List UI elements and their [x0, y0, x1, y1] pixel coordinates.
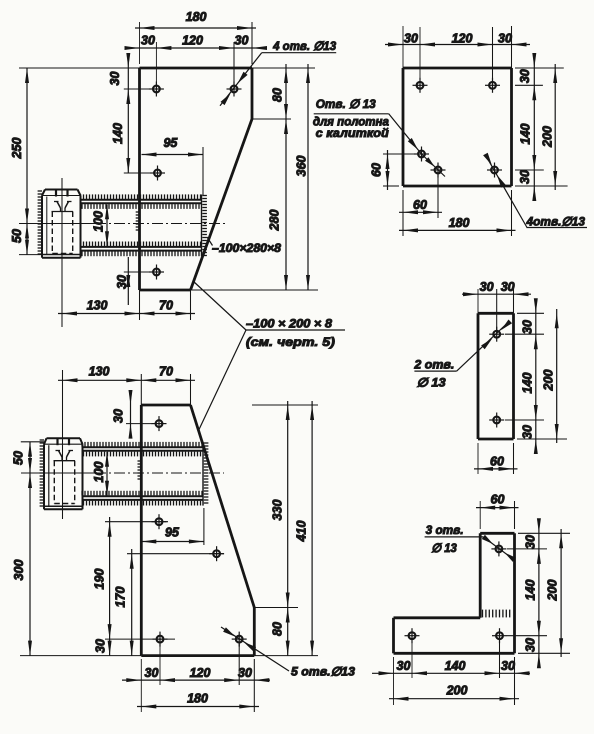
svg-text:120: 120: [452, 31, 473, 45]
svg-text:140: 140: [520, 373, 534, 394]
svg-text:100: 100: [91, 211, 105, 232]
svg-text:130: 130: [89, 364, 110, 378]
svg-text:250: 250: [10, 138, 24, 160]
svg-text:30: 30: [108, 72, 122, 86]
svg-text:180: 180: [187, 691, 208, 705]
svg-text:60: 60: [491, 492, 505, 506]
svg-text:280: 280: [267, 210, 281, 232]
svg-text:180: 180: [186, 10, 207, 24]
svg-text:с калиткой: с калиткой: [316, 126, 390, 140]
svg-text:30: 30: [141, 33, 155, 47]
svg-text:80: 80: [270, 622, 284, 636]
svg-text:Отв. ∅ 13: Отв. ∅ 13: [316, 97, 376, 111]
svg-text:300: 300: [12, 560, 26, 581]
svg-text:80: 80: [270, 88, 284, 102]
svg-text:30: 30: [235, 33, 249, 47]
svg-text:30: 30: [397, 659, 411, 673]
svg-text:70: 70: [159, 364, 173, 378]
svg-text:30: 30: [501, 280, 515, 294]
svg-text:30: 30: [404, 31, 418, 45]
svg-text:120: 120: [190, 666, 211, 680]
svg-text:70: 70: [159, 298, 173, 312]
svg-text:30: 30: [480, 280, 494, 294]
svg-text:–100×280×8: –100×280×8: [212, 241, 281, 255]
svg-text:120: 120: [182, 33, 203, 47]
svg-text:60: 60: [490, 454, 504, 468]
svg-text:130: 130: [87, 298, 108, 312]
svg-text:50: 50: [10, 229, 24, 243]
svg-text:30: 30: [518, 69, 532, 83]
svg-text:200: 200: [541, 370, 555, 392]
svg-text:∅ 13: ∅ 13: [417, 375, 446, 389]
svg-text:4 отв. ∅13: 4 отв. ∅13: [272, 39, 336, 53]
svg-text:60: 60: [413, 198, 427, 212]
svg-text:30: 30: [523, 638, 537, 652]
svg-text:410: 410: [294, 521, 308, 543]
svg-text:30: 30: [111, 409, 125, 423]
svg-text:4отв.∅13: 4отв.∅13: [526, 214, 586, 228]
svg-text:–100 × 200 × 8: –100 × 200 × 8: [246, 317, 332, 331]
svg-text:200: 200: [446, 683, 468, 697]
svg-text:140: 140: [523, 580, 537, 601]
svg-text:5 отв.∅13: 5 отв.∅13: [291, 664, 355, 678]
svg-text:170: 170: [113, 587, 127, 608]
svg-text:30: 30: [145, 666, 159, 680]
svg-text:190: 190: [92, 569, 106, 590]
svg-text:95: 95: [165, 525, 180, 539]
svg-text:50: 50: [11, 451, 25, 465]
svg-text:30: 30: [520, 320, 534, 334]
svg-text:95: 95: [163, 136, 178, 150]
svg-text:(см. черт. 5): (см. черт. 5): [246, 335, 335, 349]
svg-text:30: 30: [498, 31, 512, 45]
svg-text:100: 100: [92, 462, 106, 483]
svg-text:180: 180: [449, 216, 470, 230]
svg-text:30: 30: [501, 659, 515, 673]
svg-text:2 отв.: 2 отв.: [413, 358, 454, 372]
svg-text:200: 200: [540, 126, 554, 148]
svg-text:140: 140: [445, 659, 466, 673]
svg-text:330: 330: [270, 500, 284, 521]
svg-text:30: 30: [520, 425, 534, 439]
svg-text:30: 30: [115, 275, 129, 289]
svg-text:360: 360: [294, 156, 308, 177]
svg-text:3 отв.: 3 отв.: [426, 523, 464, 537]
svg-text:30: 30: [93, 639, 107, 653]
svg-text:30: 30: [518, 170, 532, 184]
svg-text:200: 200: [545, 580, 559, 602]
svg-text:30: 30: [238, 666, 252, 680]
svg-text:140: 140: [518, 124, 532, 145]
svg-text:∅ 13: ∅ 13: [431, 541, 457, 555]
svg-text:140: 140: [111, 123, 125, 144]
svg-text:60: 60: [369, 163, 383, 177]
svg-text:30: 30: [523, 535, 537, 549]
